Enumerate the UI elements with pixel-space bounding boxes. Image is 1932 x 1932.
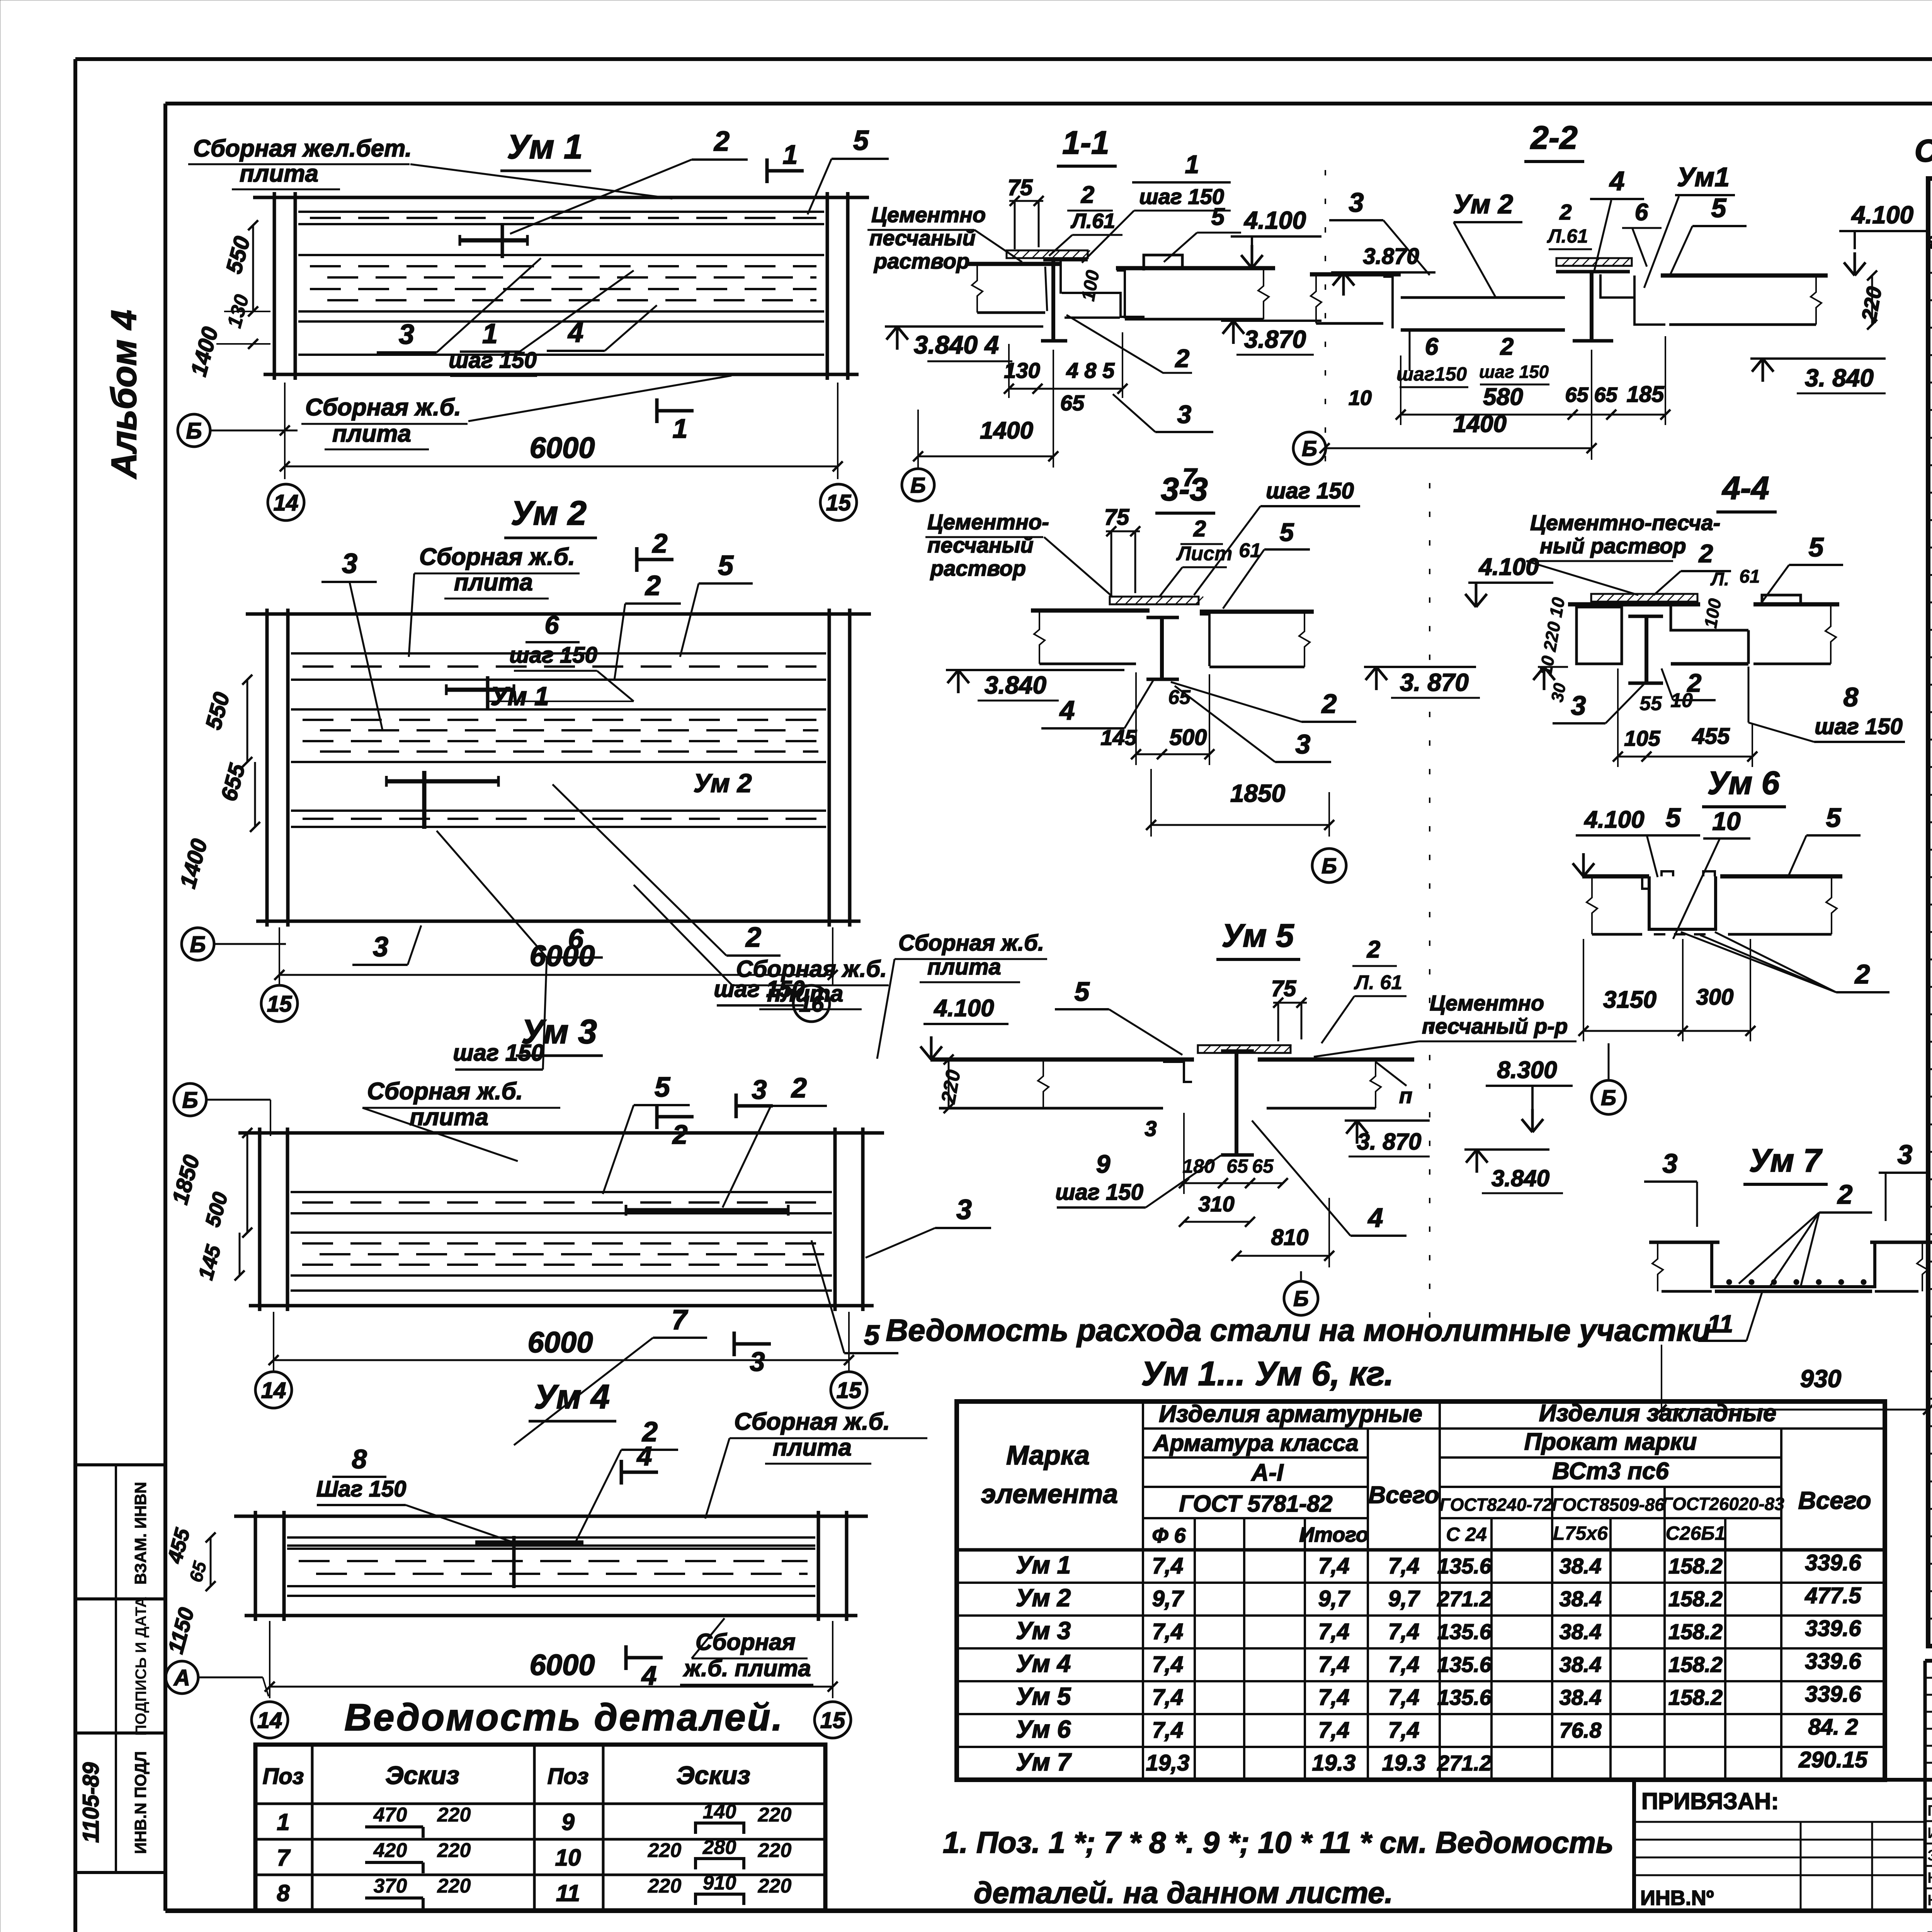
svg-text:220: 220 (437, 1804, 471, 1826)
svg-text:7,4: 7,4 (1388, 1619, 1420, 1644)
svg-text:5: 5 (1711, 193, 1727, 223)
s11 grid bubble B (902, 469, 934, 501)
svg-text:14: 14 (261, 1378, 286, 1403)
svg-text:14: 14 (274, 490, 299, 515)
s22 dim chain (1401, 414, 1665, 416)
svg-text:11: 11 (556, 1880, 580, 1906)
plan Um2 hatch band (291, 652, 826, 655)
svg-text:Поз: Поз (548, 1764, 589, 1789)
svg-text:6000: 6000 (529, 432, 595, 464)
svg-text:65: 65 (1226, 1155, 1248, 1177)
details table frame (255, 1745, 825, 1910)
svg-text:Эскиз: Эскиз (676, 1761, 750, 1789)
plan Um3 grid bubble B (174, 1083, 206, 1116)
svg-text:Л.61: Л.61 (1547, 225, 1588, 247)
svg-text:3: 3 (1571, 690, 1586, 721)
svg-text:2: 2 (1175, 344, 1190, 372)
svg-text:Б: Б (1321, 854, 1337, 878)
plan Um3 rebar detail (626, 1208, 788, 1213)
plan Um1 right column (826, 192, 829, 380)
svg-text:7,4: 7,4 (1152, 1685, 1184, 1710)
svg-text:500: 500 (1170, 725, 1207, 750)
plan Um1 slab edge line (298, 320, 824, 323)
svg-text:10: 10 (555, 1845, 581, 1871)
svg-text:15: 15 (820, 1708, 845, 1733)
plan Um1 section flag 1 bottom (655, 398, 659, 423)
svg-text:1105-89: 1105-89 (78, 1762, 104, 1843)
svg-text:Б: Б (1601, 1085, 1616, 1110)
svg-text:271.2: 271.2 (1437, 1751, 1492, 1775)
svg-text:Сборная ж.б.: Сборная ж.б. (305, 394, 461, 421)
s22 I-beam (1556, 270, 1630, 274)
svg-text:3: 3 (956, 1194, 972, 1225)
svg-text:Ум 3: Ум 3 (1016, 1617, 1071, 1645)
svg-text:1: 1 (1185, 150, 1199, 179)
svg-text:п: п (1399, 1083, 1412, 1108)
s11 channel step (1062, 293, 1145, 317)
s33 left slab (1031, 609, 1150, 613)
plan Um2 grid bubble B (182, 928, 214, 960)
svg-text:Лист: Лист (1176, 543, 1233, 565)
svg-text:15: 15 (267, 992, 292, 1017)
svg-text:раствор: раствор (873, 249, 969, 273)
svg-text:55: 55 (1639, 692, 1662, 715)
um6 channel middle (1649, 876, 1716, 929)
svg-text:19,3: 19,3 (1146, 1750, 1190, 1776)
svg-text:5: 5 (655, 1072, 670, 1103)
plan Um2 left column (265, 609, 269, 927)
plan Um4 grid bubble 15 (815, 1702, 851, 1738)
svg-text:2: 2 (713, 126, 730, 157)
s44 middle step (1671, 604, 1748, 630)
tb privyazan grid (1634, 1821, 1925, 1823)
um5 I-beam (1221, 1049, 1254, 1053)
svg-text:4: 4 (1609, 166, 1625, 196)
svg-text:2: 2 (1837, 1179, 1853, 1209)
svg-text:38.4: 38.4 (1560, 1652, 1602, 1677)
svg-text:3.840 4: 3.840 4 (914, 330, 999, 359)
svg-text:220: 220 (758, 1839, 792, 1862)
svg-text:220: 220 (758, 1875, 792, 1897)
svg-text:8: 8 (1844, 682, 1859, 712)
svg-text:шаг 150: шаг 150 (1266, 478, 1354, 503)
svg-text:76.8: 76.8 (1560, 1718, 1602, 1742)
svg-text:2: 2 (652, 528, 668, 558)
svg-text:3150: 3150 (1603, 986, 1656, 1013)
plan Um2 grid bubble 15 (261, 985, 298, 1022)
svg-text:3: 3 (1145, 1116, 1156, 1141)
um5 elevation 3.870 (1345, 1119, 1430, 1122)
svg-text:158.2: 158.2 (1668, 1652, 1723, 1677)
svg-text:7,4: 7,4 (1388, 1553, 1420, 1578)
s33 grid bubble B (1312, 849, 1346, 883)
plan Um4 grid bubble A (166, 1661, 198, 1694)
plan Um2 hatch band (291, 708, 826, 711)
svg-text:6: 6 (1635, 199, 1648, 226)
svg-text:Альбом 4: Альбом 4 (104, 310, 144, 479)
tb signature row ИНЖЕН. (1925, 1820, 1932, 1822)
s11 mortar hatch strip (1007, 250, 1088, 258)
svg-text:220: 220 (648, 1839, 682, 1862)
svg-text:580: 580 (1483, 384, 1523, 410)
svg-text:2: 2 (1321, 689, 1337, 719)
um6 right slab (1720, 874, 1842, 879)
svg-text:Ум 4: Ум 4 (1016, 1650, 1071, 1677)
s44 right slab (1753, 602, 1839, 607)
svg-text:Б: Б (182, 1088, 198, 1113)
svg-text:16: 16 (799, 992, 824, 1017)
svg-text:7,4: 7,4 (1388, 1685, 1420, 1710)
svg-text:3: 3 (1898, 1139, 1913, 1170)
svg-text:3. 840: 3. 840 (1805, 364, 1874, 392)
s22 right slab (1661, 274, 1828, 278)
s33 I-beam (1146, 616, 1179, 619)
plan Um3 right column (833, 1128, 837, 1311)
svg-text:деталей. на данном листе.: деталей. на данном листе. (974, 1876, 1393, 1910)
svg-text:180: 180 (1182, 1155, 1215, 1177)
svg-text:ПОДПИСЬ И ДАТА: ПОДПИСЬ И ДАТА (133, 1597, 150, 1736)
svg-text:шаг 150: шаг 150 (1479, 362, 1549, 382)
svg-text:Итого: Итого (1299, 1523, 1369, 1546)
svg-text:61: 61 (1739, 566, 1760, 587)
svg-text:8: 8 (277, 1880, 290, 1906)
svg-text:9,7: 9,7 (1388, 1586, 1420, 1611)
plan Um1 rebar detail pos2 (460, 238, 527, 243)
svg-text:7,4: 7,4 (1152, 1718, 1184, 1743)
svg-text:Л.61: Л.61 (1070, 209, 1115, 233)
svg-text:3: 3 (342, 548, 357, 579)
svg-text:шаг 150: шаг 150 (449, 348, 537, 373)
svg-text:8: 8 (352, 1444, 367, 1474)
steel table header lines (1143, 1427, 1885, 1430)
svg-text:Сборная ж.б.: Сборная ж.б. (898, 930, 1044, 956)
um6 left slab (1582, 874, 1649, 879)
svg-text:3: 3 (373, 932, 388, 963)
svg-text:1: 1 (673, 413, 688, 444)
s22 middle low slab (1401, 296, 1565, 299)
svg-text:455: 455 (1692, 724, 1730, 749)
svg-text:6000: 6000 (527, 1326, 593, 1359)
steel table row line (957, 1680, 1885, 1682)
svg-text:Поз: Поз (263, 1764, 304, 1789)
svg-text:75: 75 (1271, 976, 1296, 1001)
svg-text:Цементно: Цементно (871, 202, 986, 227)
svg-text:810: 810 (1271, 1225, 1309, 1250)
svg-text:ВСт3 пс6: ВСт3 пс6 (1552, 1458, 1669, 1485)
svg-text:Сборная ж.б.: Сборная ж.б. (367, 1078, 523, 1105)
svg-text:Ф 6: Ф 6 (1152, 1524, 1186, 1547)
svg-text:145: 145 (1100, 725, 1137, 750)
svg-text:300: 300 (1696, 985, 1734, 1010)
svg-text:11: 11 (1708, 1310, 1733, 1338)
svg-text:Ум 3: Ум 3 (521, 1012, 597, 1051)
svg-text:7,4: 7,4 (1388, 1652, 1420, 1677)
s22 mortar hatch strip (1556, 258, 1632, 266)
svg-text:2: 2 (645, 570, 661, 601)
svg-text:185: 185 (1627, 382, 1665, 407)
svg-text:4-4: 4-4 (1721, 470, 1769, 506)
s22 elevation 3.840 (1750, 357, 1886, 360)
svg-text:7: 7 (277, 1845, 291, 1871)
plan Um2 top chord (246, 612, 871, 616)
steel table row line (957, 1713, 1885, 1715)
svg-text:4: 4 (1367, 1202, 1383, 1233)
svg-text:2: 2 (1559, 200, 1571, 224)
svg-text:шаг150: шаг150 (1396, 363, 1467, 385)
plan Um1 grid bubble 15 (820, 484, 857, 520)
svg-text:А: А (173, 1665, 190, 1690)
left margin stamp boxes (75, 1463, 165, 1466)
svg-text:Ум 2: Ум 2 (511, 494, 587, 532)
svg-text:ЗАВ.ГР.: ЗАВ.ГР. (1927, 1847, 1932, 1864)
svg-text:ПРОВЕР.: ПРОВЕР. (1927, 1802, 1932, 1819)
um5 grid bubble B (1284, 1281, 1318, 1315)
svg-text:А-I: А-I (1251, 1459, 1284, 1486)
svg-text:9,7: 9,7 (1318, 1586, 1350, 1611)
svg-text:Изделия арматурные: Изделия арматурные (1159, 1401, 1422, 1427)
svg-text:7,4: 7,4 (1152, 1652, 1184, 1677)
svg-text:Шаг 150: Шаг 150 (316, 1476, 406, 1502)
svg-text:4.100: 4.100 (1478, 554, 1539, 580)
svg-text:Сборная ж.б.: Сборная ж.б. (736, 956, 887, 982)
svg-text:С 24: С 24 (1446, 1524, 1487, 1545)
plan Um2 rebar detail bottom (386, 779, 498, 784)
svg-text:7,4: 7,4 (1318, 1619, 1350, 1644)
plan Um4 left column (254, 1511, 257, 1621)
plan Um4 hatch band (287, 1536, 815, 1539)
svg-text:19.3: 19.3 (1312, 1750, 1356, 1776)
svg-text:Ум 2: Ум 2 (1453, 189, 1513, 219)
svg-text:3: 3 (1663, 1148, 1678, 1179)
svg-text:339.6: 339.6 (1805, 1616, 1861, 1641)
spec table row lines (1928, 272, 1932, 274)
svg-text:280: 280 (702, 1836, 736, 1859)
um5 elevation 3.840 (1464, 1148, 1549, 1151)
s11 elevation 3.870 (1221, 320, 1321, 322)
plan Um3 top chord (238, 1131, 884, 1135)
plan Um4 section flag 4 top (620, 1460, 623, 1485)
svg-text:Цементно: Цементно (1430, 991, 1544, 1015)
svg-text:ИНВ.Nº: ИНВ.Nº (1640, 1886, 1714, 1910)
svg-text:4.100: 4.100 (1583, 806, 1644, 833)
steel table row line (957, 1614, 1885, 1617)
svg-text:3: 3 (1177, 400, 1192, 429)
svg-text:220: 220 (437, 1875, 471, 1897)
plan Um1 bottom chord (264, 373, 859, 376)
um5 right slab (1258, 1058, 1414, 1062)
svg-text:7,4: 7,4 (1318, 1718, 1350, 1743)
svg-text:Цементно-: Цементно- (927, 510, 1049, 534)
plan Um3 bottom chord (249, 1304, 874, 1308)
svg-text:8.300: 8.300 (1497, 1057, 1557, 1083)
svg-text:КОПИРОВАЛ:ЛОГИНОВА: КОПИРОВАЛ:ЛОГИНОВА (1926, 1926, 1932, 1932)
svg-text:84. 2: 84. 2 (1808, 1714, 1858, 1740)
svg-text:2: 2 (745, 922, 761, 953)
um5 left slab (930, 1058, 1194, 1062)
plan Um4 top chord (234, 1515, 868, 1518)
svg-text:НАЧ.ОТД: НАЧ.ОТД (1927, 1892, 1932, 1909)
svg-text:Сборная: Сборная (696, 1629, 796, 1655)
svg-text:135.6: 135.6 (1437, 1554, 1492, 1578)
s44 mortar hatch strip (1591, 594, 1697, 602)
svg-text:Л. 61: Л. 61 (1354, 971, 1402, 994)
spec table frame (1928, 179, 1932, 1646)
svg-text:7,4: 7,4 (1152, 1619, 1184, 1644)
plan Um2 grid bubble 16 (793, 985, 830, 1022)
svg-text:38.4: 38.4 (1560, 1554, 1602, 1578)
svg-text:65: 65 (1252, 1155, 1274, 1177)
svg-text:477.5: 477.5 (1804, 1583, 1861, 1608)
svg-text:Ум 4: Ум 4 (534, 1378, 610, 1416)
svg-text:9: 9 (561, 1809, 575, 1835)
svg-text:Сборная жел.бет.: Сборная жел.бет. (193, 135, 412, 162)
svg-text:1: 1 (783, 139, 798, 170)
s22 grid bubble B (1293, 432, 1326, 464)
plan Um2 right column (828, 609, 831, 927)
svg-text:5: 5 (1826, 803, 1842, 833)
svg-text:30: 30 (1548, 682, 1570, 704)
svg-text:339.6: 339.6 (1805, 1550, 1861, 1575)
svg-text:шаг 150: шаг 150 (1055, 1180, 1143, 1205)
um5 mortar hatch strip (1198, 1045, 1291, 1053)
svg-text:7,4: 7,4 (1152, 1553, 1184, 1578)
svg-text:Спецификация к монолитным учас: Спецификация к монолитным участкам Ум 1.… (1915, 133, 1932, 168)
plan Um1 hatch band (298, 211, 824, 213)
svg-text:ГОСТ 5781-82: ГОСТ 5781-82 (1179, 1491, 1332, 1517)
svg-text:310: 310 (1198, 1192, 1234, 1216)
plan Um4 hatch band (287, 1548, 815, 1550)
tb signature rows (1925, 1798, 1932, 1800)
svg-text:339.6: 339.6 (1805, 1649, 1861, 1674)
svg-text:75: 75 (1104, 505, 1129, 530)
steel table row line (957, 1746, 1885, 1748)
svg-text:38.4: 38.4 (1560, 1685, 1602, 1709)
svg-text:339.6: 339.6 (1805, 1682, 1861, 1707)
svg-text:9,7: 9,7 (1152, 1586, 1184, 1611)
drawing inner frame (165, 102, 1932, 105)
s11 elevation 3.840 (885, 325, 1043, 328)
svg-text:2: 2 (1081, 182, 1094, 208)
plan Um1 left column (273, 192, 276, 380)
svg-text:7: 7 (672, 1304, 688, 1335)
svg-text:Ум 6: Ум 6 (1016, 1715, 1071, 1743)
svg-text:65: 65 (1060, 391, 1085, 415)
svg-text:2: 2 (1367, 936, 1380, 963)
svg-text:Ум 1: Ум 1 (1016, 1551, 1071, 1579)
svg-text:3: 3 (1296, 729, 1311, 759)
svg-text:140: 140 (703, 1801, 736, 1823)
svg-text:910: 910 (703, 1872, 736, 1894)
svg-text:Ум 7: Ум 7 (1749, 1142, 1823, 1179)
sheet outer frame (75, 57, 1932, 61)
svg-text:290.15: 290.15 (1798, 1747, 1867, 1772)
svg-text:Арматура класса: Арматура класса (1152, 1430, 1359, 1456)
svg-text:3. 870: 3. 870 (1357, 1129, 1422, 1155)
svg-text:Прокат марки: Прокат марки (1524, 1429, 1697, 1455)
tb outer top-left line (1634, 1778, 1932, 1782)
svg-text:ГОСТ8240-72: ГОСТ8240-72 (1439, 1495, 1552, 1515)
svg-text:5: 5 (864, 1320, 880, 1351)
svg-text:38.4: 38.4 (1560, 1619, 1602, 1644)
svg-text:4: 4 (636, 1441, 652, 1471)
svg-text:7: 7 (1182, 463, 1198, 492)
svg-text:220: 220 (437, 1839, 471, 1862)
steel table row line (957, 1647, 1885, 1650)
svg-text:7,4: 7,4 (1388, 1718, 1420, 1743)
svg-text:158.2: 158.2 (1668, 1685, 1723, 1709)
svg-text:4: 4 (567, 317, 583, 348)
svg-text:3.870: 3.870 (1244, 325, 1306, 353)
svg-text:Н.КОНТР: Н.КОНТР (1927, 1869, 1932, 1886)
tb signature row НАЧ.ОТД (1925, 1888, 1932, 1889)
svg-text:Всего: Всего (1368, 1482, 1439, 1509)
svg-text:135.6: 135.6 (1437, 1685, 1492, 1709)
svg-text:Б: Б (1302, 436, 1317, 461)
plan Um4 rebar detail (475, 1541, 583, 1545)
svg-text:1. Поз. 1 *; 7 * 8 *. 9 *;: 1. Поз. 1 *; 7 * 8 *. 9 *; 10 * 11 * см.… (943, 1825, 1614, 1859)
plan Um3 hatch band (291, 1231, 832, 1234)
svg-text:Ум 1... Ум 6, кг.: Ум 1... Ум 6, кг. (1141, 1354, 1393, 1393)
svg-text:7,4: 7,4 (1318, 1652, 1350, 1677)
steel table row line (957, 1582, 1885, 1584)
svg-text:15: 15 (826, 490, 851, 515)
svg-text:3: 3 (1349, 187, 1364, 218)
svg-text:38.4: 38.4 (1560, 1587, 1602, 1611)
plan Um1 hatch band (298, 254, 824, 256)
svg-text:ный раствор: ный раствор (1540, 534, 1686, 558)
steel table column lines (1142, 1401, 1144, 1780)
plan Um3 grid bubble 14 (255, 1372, 292, 1408)
svg-text:Ум1: Ум1 (1677, 162, 1730, 192)
svg-text:Ум 5: Ум 5 (1222, 917, 1294, 954)
plan Um3 grid bubble 15 (831, 1372, 867, 1408)
svg-text:15: 15 (837, 1378, 862, 1403)
svg-text:Ум 2: Ум 2 (1016, 1584, 1071, 1612)
svg-text:Б: Б (186, 418, 202, 444)
plan Um4 right column (817, 1511, 820, 1621)
svg-text:9: 9 (1096, 1150, 1111, 1178)
svg-text:6000: 6000 (529, 940, 595, 973)
tb signature row ЗАВ.ГР. (1925, 1843, 1932, 1845)
svg-text:6000: 6000 (529, 1649, 595, 1682)
svg-text:3: 3 (399, 319, 414, 350)
svg-text:1-1: 1-1 (1062, 124, 1109, 161)
plan Um3 left column (258, 1128, 262, 1311)
svg-text:5: 5 (853, 125, 869, 156)
s22 right step blocks (1600, 274, 1634, 298)
s11 right slab step pos5 (1144, 255, 1182, 270)
svg-text:158.2: 158.2 (1668, 1619, 1723, 1644)
svg-text:4.100: 4.100 (1851, 201, 1913, 229)
svg-text:шаг 150: шаг 150 (1815, 714, 1903, 739)
plan Um4 slab edge line (287, 1595, 815, 1597)
steel table frame (957, 1401, 1885, 1780)
svg-text:19.3: 19.3 (1382, 1750, 1426, 1776)
svg-text:ИНВ.N ПОДЛ: ИНВ.N ПОДЛ (131, 1751, 150, 1854)
plan Um3 hatch band (291, 1191, 832, 1193)
svg-text:7,4: 7,4 (1318, 1685, 1350, 1710)
svg-text:3: 3 (750, 1347, 765, 1377)
um7 channel body (1649, 1241, 1719, 1244)
s33 mortar hatch strip (1110, 597, 1199, 604)
svg-text:5: 5 (718, 550, 734, 581)
svg-text:Б: Б (190, 932, 206, 957)
svg-text:Б: Б (910, 473, 926, 497)
svg-text:Всего: Всего (1798, 1486, 1871, 1514)
svg-text:Изделия закладные: Изделия закладные (1539, 1400, 1777, 1427)
svg-text:105: 105 (1624, 726, 1660, 750)
svg-text:Ум 7: Ум 7 (1016, 1748, 1072, 1776)
